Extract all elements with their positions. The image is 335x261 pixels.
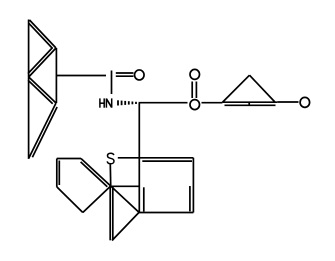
double bond pentagon left xyxy=(56,159,58,187)
wire ester O to cyclopropene xyxy=(202,102,223,104)
wire pentagon top xyxy=(57,158,81,160)
atom label O (ester) xyxy=(190,100,200,110)
wire S to ring C xyxy=(118,157,139,159)
double bond ring-A top-right edge xyxy=(30,20,57,48)
wire chiral C to ester O xyxy=(139,102,188,104)
double bond inner line benzo left-lower xyxy=(143,187,145,211)
wire ring-A left vertical xyxy=(28,20,30,159)
atom label S xyxy=(107,153,114,164)
hashed wedge bond N to chiral C xyxy=(117,100,119,105)
wire cyclopropene right edge xyxy=(250,75,275,102)
carbonyl C=O double bond xyxy=(116,72,134,74)
wire fused vertex to ring left side xyxy=(111,185,139,187)
double bond ring-A bottom edge xyxy=(29,103,57,159)
wire cyclopropene to O xyxy=(277,101,298,103)
carbonyl O=O double bond vertical xyxy=(191,82,193,99)
wire ring-A to carbonyl C xyxy=(57,75,106,77)
wire pentagon bottom-right xyxy=(83,186,111,213)
wire carbonyl C to N xyxy=(111,71,113,95)
double bond benzo ring right xyxy=(192,158,194,213)
atom label O (amide) xyxy=(135,70,145,80)
double bond benzo ring top xyxy=(139,157,194,159)
double bond ring-A lower-right edge xyxy=(29,77,56,103)
wire chiral C down through ring left side xyxy=(138,103,140,213)
wire ring-A right vertical xyxy=(55,48,57,103)
wire ring bottom-left to bottom vertex xyxy=(112,213,139,241)
double bond ring-A upper-left edge xyxy=(29,48,56,77)
wire S down to fused vertex xyxy=(109,165,111,186)
wire cyclopropene left edge xyxy=(222,75,249,102)
double bond vertical below fused vertex xyxy=(109,186,111,240)
tick below cyclopropene apex xyxy=(248,102,250,105)
atom label O (carbonyl top) xyxy=(190,69,200,79)
cyclopropene double bond bottom xyxy=(222,101,277,103)
atom label HN xyxy=(100,98,112,107)
wire fused vertex to ring bottom-left corner xyxy=(111,186,139,212)
double bond pentagon top-right diagonal xyxy=(81,159,111,187)
wire benzo ring bottom xyxy=(139,212,193,214)
wire pentagon bottom-left xyxy=(57,187,83,213)
atom label O (right) xyxy=(300,97,310,107)
